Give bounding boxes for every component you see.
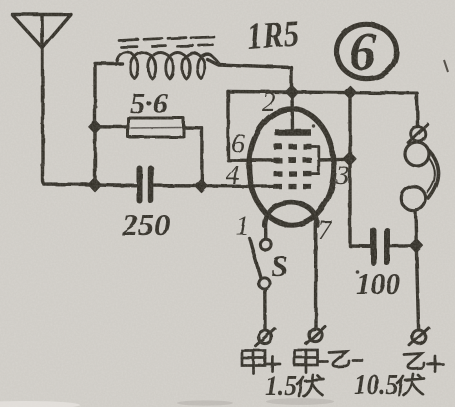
paper smudges xyxy=(177,398,334,406)
iron core dashed lines above L1 xyxy=(119,37,214,47)
wire top rail corner down to phone plug xyxy=(415,93,419,126)
node resistor-left junction xyxy=(89,121,101,134)
node plate junction xyxy=(286,86,298,98)
wire R1 left lead xyxy=(95,125,128,129)
tube grid row 3 xyxy=(274,171,312,176)
wire pin 7 lead xyxy=(314,222,318,328)
node C1-right junction xyxy=(196,180,208,193)
capacitor C1 250 xyxy=(140,169,151,201)
wire R1 right lead down to bottom rail xyxy=(184,128,203,187)
headphone earpiece upper xyxy=(405,142,429,166)
wire top rail xyxy=(228,92,417,94)
tube grid row 4 xyxy=(274,184,312,189)
wire pin6 bracket xyxy=(228,92,278,161)
switch S bottom contact xyxy=(258,277,269,288)
wire right riser from top rail xyxy=(350,92,371,246)
tube grid row 2 xyxy=(274,158,312,163)
wire screen bracket pin 3 xyxy=(312,147,319,174)
wire antenna stem down to bottom rail xyxy=(43,47,95,185)
wire bottom rail to capacitor C1 left plate xyxy=(95,183,137,187)
wire switch to terminal xyxy=(263,289,267,330)
figure number 6 circled xyxy=(337,22,397,82)
node bottom-left junction xyxy=(89,178,101,191)
wire C1 right plate to grid pin 4 xyxy=(154,186,278,187)
wire C2 right lead xyxy=(390,244,416,248)
wire headphone to B+ terminal xyxy=(416,211,419,330)
headphone earpiece lower xyxy=(401,186,425,210)
terminal label yi+ xyxy=(404,354,443,372)
phone plug contact xyxy=(408,124,428,143)
node top-right junction xyxy=(344,86,356,98)
tube filament dome xyxy=(265,202,318,225)
wire pin 3 lead xyxy=(319,158,350,162)
wire pin 1 lead xyxy=(264,222,268,239)
headphone band xyxy=(429,151,439,199)
wire plate stem pin 2 xyxy=(290,92,294,130)
switch S top contact xyxy=(260,239,271,250)
terminal label jia+ xyxy=(242,351,280,374)
terminal 乙+ xyxy=(410,328,429,345)
node C2 junction xyxy=(410,239,423,252)
wire coil right lead to plate node xyxy=(207,59,292,92)
wire left tank riser xyxy=(95,64,122,185)
tube grid row 1 xyxy=(274,144,312,149)
terminal 甲+ xyxy=(256,329,275,346)
capacitor C2 100 xyxy=(374,231,388,263)
inductor L1 coil xyxy=(116,52,220,79)
stray ink flecks xyxy=(40,60,448,274)
switch S lever xyxy=(250,239,261,278)
node pin3 junction xyxy=(343,152,355,165)
terminal 甲-乙- xyxy=(306,327,325,344)
tube plate bar xyxy=(275,129,311,135)
terminal label jia-yi- xyxy=(295,350,363,373)
antenna xyxy=(12,15,71,49)
resistor R1 5.6 xyxy=(128,118,184,137)
tube V1 envelope xyxy=(249,109,334,225)
